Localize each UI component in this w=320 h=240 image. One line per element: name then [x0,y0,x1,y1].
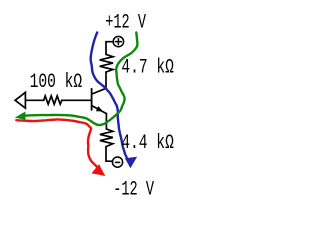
svg-text:-12 V: -12 V [113,179,154,201]
svg-text:4.7 kΩ: 4.7 kΩ [121,57,174,80]
svg-text:+12 V: +12 V [105,12,146,34]
svg-text:100 kΩ: 100 kΩ [30,71,83,94]
svg-text:4.4 kΩ: 4.4 kΩ [121,132,174,155]
